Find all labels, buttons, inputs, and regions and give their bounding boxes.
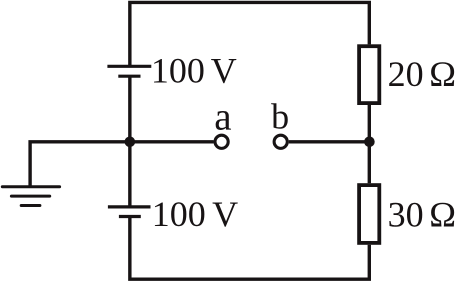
- svg-text:20: 20: [388, 54, 424, 94]
- svg-text:30: 30: [388, 194, 424, 234]
- svg-text:a: a: [214, 95, 231, 138]
- svg-text:Ω: Ω: [429, 194, 456, 234]
- svg-text:b: b: [271, 96, 289, 136]
- svg-text:Ω: Ω: [429, 54, 456, 94]
- svg-text:100: 100: [152, 194, 206, 234]
- svg-text:V: V: [212, 194, 238, 234]
- svg-text:V: V: [211, 50, 237, 90]
- svg-text:100: 100: [151, 50, 205, 90]
